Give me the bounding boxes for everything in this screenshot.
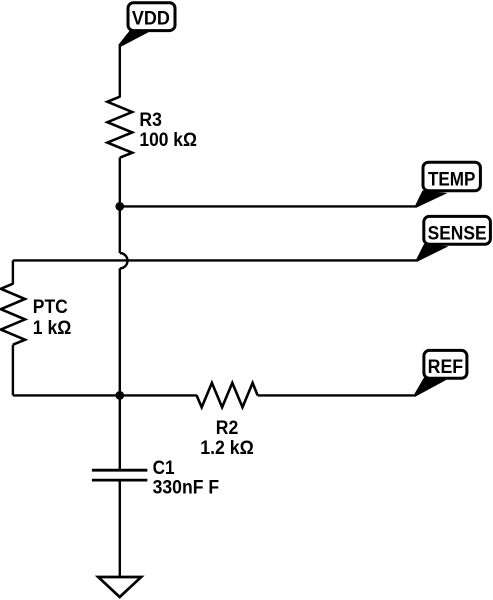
svg-text:PTC: PTC xyxy=(33,297,68,318)
node A junction dot xyxy=(115,202,124,211)
wire node A to TEMP xyxy=(120,205,417,207)
wire node B to C1 xyxy=(119,395,121,469)
svg-text:R3: R3 xyxy=(139,110,162,131)
node B junction dot xyxy=(115,391,124,400)
wire node B to R2 xyxy=(120,394,197,396)
svg-text:C1: C1 xyxy=(153,458,175,479)
svg-text:330nF F: 330nF F xyxy=(153,478,220,499)
svg-text:SENSE: SENSE xyxy=(428,223,487,244)
resistor R2 xyxy=(197,383,258,459)
svg-text:1 kΩ: 1 kΩ xyxy=(33,318,72,339)
wire C1 to ground xyxy=(119,481,121,577)
svg-text:VDD: VDD xyxy=(132,9,170,30)
svg-text:TEMP: TEMP xyxy=(428,170,476,191)
ground xyxy=(98,577,141,597)
svg-text:100 kΩ: 100 kΩ xyxy=(139,130,197,151)
thermistor PTC xyxy=(1,260,72,395)
wire hop over SENSE wire xyxy=(120,253,128,268)
wire hop to node B xyxy=(119,268,121,395)
wire SENSE to PTC top xyxy=(13,259,418,261)
wire R3 to node A xyxy=(119,158,121,207)
wire VDD to R3 xyxy=(119,46,121,98)
net flag TEMP xyxy=(416,162,481,207)
wire node A to hop xyxy=(119,206,121,253)
net flag REF xyxy=(415,350,467,396)
wire R2 to REF xyxy=(258,394,416,396)
wire PTC bottom to node B xyxy=(13,394,120,396)
svg-text:R2: R2 xyxy=(216,418,239,439)
svg-text:1.2 kΩ: 1.2 kΩ xyxy=(200,438,254,459)
capacitor C1 xyxy=(92,458,219,499)
power flag VDD xyxy=(119,3,176,48)
net flag SENSE xyxy=(417,216,491,261)
svg-text:REF: REF xyxy=(428,357,464,378)
resistor R3 xyxy=(107,97,196,158)
